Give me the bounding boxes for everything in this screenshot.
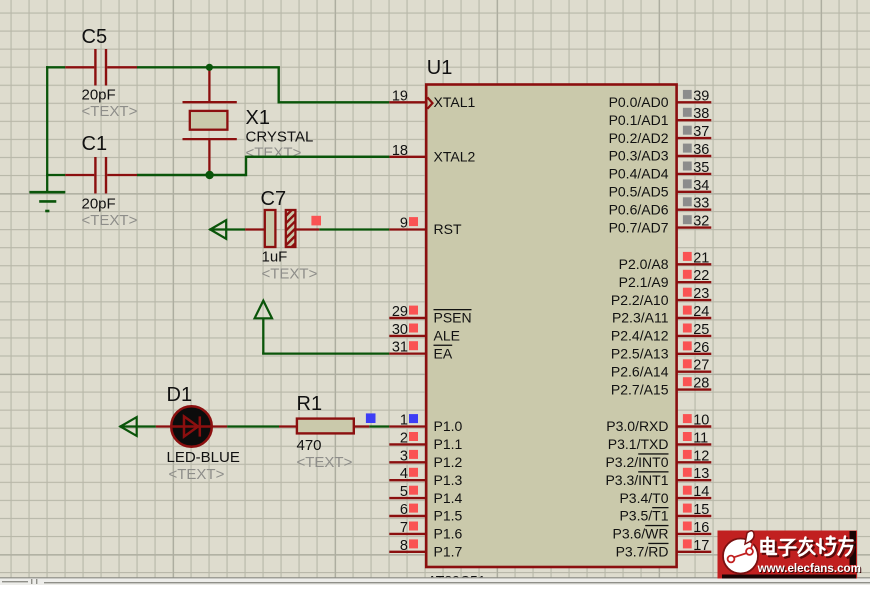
pin 37 P0.2/AD2 bbox=[609, 124, 712, 146]
svg-text:39: 39 bbox=[693, 88, 709, 104]
svg-text:<TEXT>: <TEXT> bbox=[82, 212, 138, 229]
wire: C7 to RST green bbox=[319, 228, 389, 230]
pin 25 P2.4/A12 bbox=[611, 322, 711, 344]
svg-text:6: 6 bbox=[400, 502, 408, 518]
wire: C1 bottom net left segment bbox=[46, 174, 65, 176]
svg-text:<TEXT>: <TEXT> bbox=[82, 103, 138, 120]
pin 2 P1.1 bbox=[389, 430, 462, 452]
svg-text:8: 8 bbox=[400, 538, 408, 554]
pin 19 XTAL1 bbox=[392, 88, 476, 110]
pin 21 P2.0/A8 bbox=[619, 250, 712, 272]
svg-text:P0.3/AD3: P0.3/AD3 bbox=[609, 148, 669, 164]
svg-text:32: 32 bbox=[693, 214, 709, 230]
bottom scrollbar strip bbox=[0, 577, 870, 585]
pin 30 ALE bbox=[389, 322, 460, 344]
pin 28 P2.7/A15 bbox=[611, 376, 711, 398]
svg-text:C5: C5 bbox=[82, 26, 108, 48]
svg-text:P2.2/A10: P2.2/A10 bbox=[611, 292, 669, 308]
crystal X1 bottom stub bbox=[208, 139, 210, 175]
wire: C1 right to junction to step up to XTAL2 bbox=[137, 157, 389, 175]
svg-text:R1: R1 bbox=[297, 393, 323, 415]
svg-text:P2.1/A9: P2.1/A9 bbox=[619, 274, 669, 290]
svg-text:P0.1/AD1: P0.1/AD1 bbox=[609, 112, 669, 128]
elecfans watermark circle logo bbox=[723, 531, 758, 574]
svg-text:P3.2/INT0: P3.2/INT0 bbox=[605, 454, 668, 470]
svg-text:19: 19 bbox=[392, 88, 408, 104]
svg-text:15: 15 bbox=[693, 502, 709, 518]
svg-text:P1.1: P1.1 bbox=[434, 436, 463, 452]
svg-text:P3.1/TXD: P3.1/TXD bbox=[608, 436, 669, 452]
svg-text:21: 21 bbox=[693, 250, 709, 266]
pin 24 P2.3/A11 bbox=[612, 304, 711, 326]
pin 36 P0.3/AD3 bbox=[609, 142, 712, 164]
svg-text:23: 23 bbox=[693, 286, 709, 302]
pin 1 P1.0 bbox=[400, 413, 463, 435]
wire: LED left pin red bbox=[156, 425, 172, 427]
pin 26 P2.5/A13 bbox=[611, 340, 711, 362]
wire: D1 terminal to LED bbox=[120, 425, 156, 427]
svg-text:C1: C1 bbox=[82, 133, 108, 155]
ground symbol bbox=[29, 192, 65, 211]
svg-text:P2.7/A15: P2.7/A15 bbox=[611, 381, 669, 397]
svg-text:35: 35 bbox=[693, 160, 709, 176]
pin 32 P0.7/AD7 bbox=[609, 214, 712, 236]
pin 3 P1.2 bbox=[389, 448, 462, 470]
capacitor C5 pin stubs bbox=[65, 66, 94, 68]
wire: RST terminal to C7 bbox=[209, 228, 245, 230]
svg-text:28: 28 bbox=[693, 376, 709, 392]
pin 7 P1.6 bbox=[389, 520, 462, 542]
crystal X1 top stub bbox=[208, 67, 210, 102]
wire: pin 18 red stub bbox=[389, 156, 426, 158]
svg-text:P0.4/AD4: P0.4/AD4 bbox=[609, 166, 669, 182]
svg-text:D1: D1 bbox=[167, 384, 193, 406]
wire: R1 right pin red bbox=[354, 425, 370, 427]
svg-text:34: 34 bbox=[693, 178, 709, 194]
svg-text:12: 12 bbox=[693, 448, 709, 464]
svg-text:26: 26 bbox=[693, 340, 709, 356]
svg-text:<TEXT>: <TEXT> bbox=[262, 266, 318, 283]
wire: GND vertical rail left bbox=[46, 66, 48, 192]
svg-text:1: 1 bbox=[400, 413, 408, 429]
svg-text:XTAL2: XTAL2 bbox=[434, 149, 476, 165]
pin 31 EA bbox=[392, 340, 453, 362]
pin 8 P1.7 bbox=[389, 538, 462, 560]
wire: C7 left pin red bbox=[245, 228, 265, 230]
svg-text:P2.4/A12: P2.4/A12 bbox=[611, 328, 669, 344]
svg-text:ALE: ALE bbox=[434, 328, 460, 344]
pin 13 P3.3/INT1 bbox=[605, 466, 711, 488]
svg-text:X1: X1 bbox=[246, 107, 270, 129]
terminal arrow left at LED net bbox=[120, 417, 136, 436]
wire: C5 top net to crystal and corner bbox=[46, 66, 65, 68]
terminal arrow up at EA net bbox=[255, 301, 272, 319]
svg-text:18: 18 bbox=[392, 143, 408, 159]
svg-text:<TEXT>: <TEXT> bbox=[246, 144, 302, 161]
pin 27 P2.6/A14 bbox=[611, 358, 711, 380]
pin 34 P0.5/AD5 bbox=[609, 178, 712, 200]
svg-text:www.elecfans.com: www.elecfans.com bbox=[757, 562, 861, 575]
pin 38 P0.1/AD1 bbox=[609, 106, 712, 128]
svg-text:38: 38 bbox=[693, 106, 709, 122]
pin 29 PSEN bbox=[389, 304, 471, 326]
svg-text:14: 14 bbox=[693, 484, 709, 500]
pin 18 XTAL2 bbox=[392, 143, 476, 165]
svg-text:30: 30 bbox=[392, 322, 408, 338]
pin 15 P3.5/T1 bbox=[619, 502, 711, 524]
svg-text:P1.4: P1.4 bbox=[434, 490, 463, 506]
svg-text:LED-BLUE: LED-BLUE bbox=[167, 449, 240, 466]
svg-text:36: 36 bbox=[693, 142, 709, 158]
svg-text:20pF: 20pF bbox=[82, 196, 116, 213]
pin 17 P3.7/RD bbox=[616, 538, 712, 560]
capacitor C1 bbox=[94, 157, 96, 194]
svg-text:22: 22 bbox=[693, 268, 709, 284]
svg-text:3: 3 bbox=[400, 448, 408, 464]
svg-text:P2.3/A11: P2.3/A11 bbox=[612, 310, 669, 326]
svg-text:P3.3/INT1: P3.3/INT1 bbox=[605, 472, 668, 488]
svg-text:PSEN: PSEN bbox=[434, 310, 472, 326]
capacitor C5 bbox=[94, 49, 96, 86]
elecfans watermark box bbox=[718, 531, 858, 579]
pin 39 P0.0/AD0 bbox=[609, 88, 712, 110]
svg-text:9: 9 bbox=[400, 216, 408, 232]
pin 5 P1.4 bbox=[389, 484, 462, 506]
wire: LED to R1 green bbox=[227, 425, 279, 427]
net marker square on RST wire bbox=[311, 216, 321, 226]
svg-text:P0.7/AD7: P0.7/AD7 bbox=[609, 219, 669, 235]
pin 33 P0.6/AD6 bbox=[609, 196, 712, 218]
elecfans watermark chinese glyph strokes bbox=[763, 538, 854, 557]
op-amp U1 body (8051 MCU rectangle) bbox=[426, 85, 676, 568]
resistor R1 bbox=[297, 419, 354, 434]
svg-text:C7: C7 bbox=[261, 188, 287, 210]
wire: LED right pin red bbox=[211, 425, 227, 427]
svg-text:P2.5/A13: P2.5/A13 bbox=[611, 346, 669, 362]
svg-text:10: 10 bbox=[693, 413, 709, 429]
svg-text:P1.0: P1.0 bbox=[434, 418, 463, 434]
svg-text:25: 25 bbox=[693, 322, 709, 338]
svg-text:P1.3: P1.3 bbox=[434, 472, 463, 488]
svg-text:P0.0/AD0: P0.0/AD0 bbox=[609, 94, 669, 110]
svg-text:24: 24 bbox=[693, 304, 709, 320]
pin 35 P0.4/AD4 bbox=[609, 160, 712, 182]
svg-text:<TEXT>: <TEXT> bbox=[297, 454, 353, 471]
svg-text:16: 16 bbox=[693, 520, 709, 536]
svg-text:XTAL1: XTAL1 bbox=[434, 94, 476, 110]
svg-text:P3.4/T0: P3.4/T0 bbox=[619, 490, 668, 506]
svg-text:P3.6/WR: P3.6/WR bbox=[612, 526, 668, 542]
svg-text:P3.7/RD: P3.7/RD bbox=[616, 544, 669, 560]
svg-text:2: 2 bbox=[400, 430, 408, 446]
svg-text:P0.6/AD6: P0.6/AD6 bbox=[609, 201, 669, 217]
clock chevron at XTAL1 pin bbox=[427, 97, 432, 108]
wire: pin 1 red stub bbox=[389, 425, 426, 427]
pin 4 P1.3 bbox=[389, 466, 462, 488]
svg-text:P2.6/A14: P2.6/A14 bbox=[611, 363, 669, 379]
junction dot bottom crystal net bbox=[205, 171, 213, 179]
wire: EA horizontal to pin 31 bbox=[262, 352, 389, 354]
wire: EA terminal vertical bbox=[262, 318, 264, 353]
svg-text:P3.0/RXD: P3.0/RXD bbox=[606, 418, 668, 434]
svg-text:P1.6: P1.6 bbox=[434, 526, 463, 542]
svg-text:13: 13 bbox=[693, 466, 709, 482]
svg-text:P1.5: P1.5 bbox=[434, 508, 463, 524]
wire: net from C5 right to corner down to XTAL1 bbox=[137, 67, 389, 102]
svg-text:CRYSTAL: CRYSTAL bbox=[246, 129, 314, 146]
wire: pin 19 red stub bbox=[389, 101, 426, 103]
wire: R1 to pin 1 green bbox=[369, 425, 389, 427]
svg-text:U1: U1 bbox=[427, 57, 453, 79]
svg-text:P2.0/A8: P2.0/A8 bbox=[619, 256, 669, 272]
capacitor C1 pin stubs bbox=[65, 174, 94, 176]
junction dot top crystal net bbox=[206, 64, 213, 71]
svg-text:EA: EA bbox=[434, 345, 453, 361]
wire: R1 left pin red bbox=[279, 425, 297, 427]
svg-text:7: 7 bbox=[400, 520, 408, 536]
svg-text:P1.7: P1.7 bbox=[434, 544, 463, 560]
svg-text:17: 17 bbox=[693, 538, 709, 554]
svg-text:33: 33 bbox=[693, 196, 709, 212]
crystal X1 bbox=[183, 102, 237, 139]
svg-text:P1.2: P1.2 bbox=[434, 454, 463, 470]
pin 6 P1.5 bbox=[389, 502, 462, 524]
LED D1 bbox=[171, 406, 212, 447]
svg-text:470: 470 bbox=[297, 437, 322, 454]
pin 14 P3.4/T0 bbox=[619, 484, 711, 506]
svg-text:P0.5/AD5: P0.5/AD5 bbox=[609, 184, 669, 200]
pin 10 P3.0/RXD bbox=[606, 413, 711, 435]
svg-text:31: 31 bbox=[392, 340, 408, 356]
pin 23 P2.2/A10 bbox=[611, 286, 711, 308]
svg-text:<TEXT>: <TEXT> bbox=[169, 466, 225, 483]
pin 22 P2.1/A9 bbox=[619, 268, 712, 290]
net marker square on P1.0 wire bbox=[366, 413, 376, 423]
pin 9 RST bbox=[400, 216, 462, 238]
svg-text:11: 11 bbox=[693, 430, 708, 446]
pin 11 P3.1/TXD bbox=[608, 430, 712, 452]
svg-text:P3.5/T1: P3.5/T1 bbox=[619, 508, 668, 524]
wire: pin 9 RST red stub bbox=[389, 228, 426, 230]
capacitor C7 polarized bbox=[265, 210, 296, 247]
svg-text:1uF: 1uF bbox=[262, 249, 288, 266]
pin 16 P3.6/WR bbox=[612, 520, 711, 542]
svg-text:5: 5 bbox=[400, 484, 408, 500]
svg-text:RST: RST bbox=[434, 221, 462, 237]
pin 12 P3.2/INT0 bbox=[605, 448, 711, 470]
svg-text:P0.2/AD2: P0.2/AD2 bbox=[609, 130, 669, 146]
terminal arrow left at RST net bbox=[210, 220, 226, 239]
svg-text:29: 29 bbox=[392, 304, 408, 320]
svg-text:37: 37 bbox=[693, 124, 709, 140]
wire: pin 31 EA red stub bbox=[389, 352, 426, 354]
svg-text:20pF: 20pF bbox=[82, 87, 116, 104]
wire overlay: XTAL2 net crossing X1 placeholder text bbox=[246, 156, 389, 158]
wire: C7 right pin red bbox=[295, 228, 319, 230]
svg-text:4: 4 bbox=[400, 466, 408, 482]
svg-text:27: 27 bbox=[693, 358, 709, 374]
